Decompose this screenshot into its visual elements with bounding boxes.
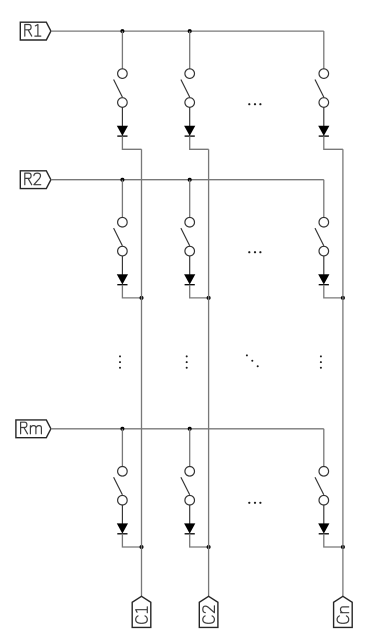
vertical ellipsis dots column Cn (more rows) xyxy=(320,355,322,368)
vertical ellipsis dots column C2 (more rows) xyxy=(186,355,188,368)
junction column C1 row R2 xyxy=(140,296,144,300)
wire switch to diode D_R2C1 xyxy=(121,256,123,275)
wire diode D_R1Cn to column Cn xyxy=(324,136,343,149)
switch SW_R2Cn xyxy=(315,217,329,256)
ellipsis dots row R2 (more columns) xyxy=(248,251,261,253)
wire stub RmC2 xyxy=(189,429,191,467)
wire column Cn vertical xyxy=(342,149,344,596)
switch SW_RmC2 xyxy=(181,467,195,506)
diagonal ellipsis dots (more rows/columns) xyxy=(246,354,259,367)
wire row Rm corner down to switch xyxy=(323,429,325,467)
wire column C2 vertical xyxy=(208,149,210,596)
wire stub R1C1 xyxy=(121,31,123,69)
diode D_RmC1 xyxy=(117,524,127,534)
wire switch to diode D_R1Cn xyxy=(323,107,325,126)
wire stub R2C2 xyxy=(189,180,191,218)
switch SW_R2C1 xyxy=(114,217,128,256)
wire stub R1C2 xyxy=(189,31,191,69)
global label Rm xyxy=(16,420,51,438)
diode D_RmCn xyxy=(319,524,329,534)
junction row R1 col C2 xyxy=(188,29,192,33)
diode D_R2C1 xyxy=(117,275,127,285)
ellipsis dots row Rm (more columns) xyxy=(248,502,261,504)
global label R1 xyxy=(20,22,51,40)
junction row R2 col C2 xyxy=(188,178,192,182)
switch SW_R1C1 xyxy=(114,69,128,108)
global label Cn xyxy=(334,596,353,627)
junction column C2 row Rm xyxy=(207,545,211,549)
switch SW_R1C2 xyxy=(181,69,195,108)
junction row R1 col C1 xyxy=(120,29,124,33)
junction column C2 row R2 xyxy=(207,296,211,300)
junction row Rm col C2 xyxy=(188,427,192,431)
wire diode D_R1C2 to column C2 xyxy=(190,136,209,149)
junction column Cn row Rm xyxy=(341,545,345,549)
vertical ellipsis dots column C1 (more rows) xyxy=(119,355,121,368)
switch SW_R1Cn xyxy=(315,69,329,108)
wire row R2 corner down to switch xyxy=(323,180,325,218)
diode D_R1Cn xyxy=(319,126,329,136)
wire switch to diode D_RmCn xyxy=(323,505,325,524)
global label C1 xyxy=(132,596,151,627)
wire switch to diode D_R1C1 xyxy=(121,107,123,126)
wire row Rm xyxy=(51,428,324,430)
switch SW_RmC1 xyxy=(114,467,128,506)
wire diode D_R1C1 to column C1 xyxy=(122,136,141,149)
diode D_R1C1 xyxy=(117,126,127,136)
wire diode D_R2C2 to column C2 xyxy=(190,285,209,298)
junction column Cn row R2 xyxy=(341,296,345,300)
wire switch to diode D_RmC1 xyxy=(121,505,123,524)
junction column C1 row Rm xyxy=(140,545,144,549)
global label R2 xyxy=(20,171,51,189)
switch SW_R2C2 xyxy=(181,217,195,256)
diode D_R1C2 xyxy=(185,126,195,136)
junction row R2 col C1 xyxy=(120,178,124,182)
ellipsis dots row R1 (more columns) xyxy=(248,103,261,105)
wire diode D_R2Cn to column Cn xyxy=(324,285,343,298)
wire diode D_R2C1 to column C1 xyxy=(122,285,141,298)
junction row Rm col C1 xyxy=(120,427,124,431)
wire stub RmC1 xyxy=(121,429,123,467)
switch SW_RmCn xyxy=(315,467,329,506)
wire switch to diode D_R2Cn xyxy=(323,256,325,275)
wire row R2 xyxy=(51,179,324,181)
wire row R1 xyxy=(51,30,324,32)
wire diode D_RmC1 to column C1 xyxy=(122,534,141,547)
wire diode D_RmC2 to column C2 xyxy=(190,534,209,547)
wire switch to diode D_R2C2 xyxy=(189,256,191,275)
diode D_R2C2 xyxy=(185,275,195,285)
wire row R1 corner down to switch xyxy=(323,31,325,69)
wire switch to diode D_R1C2 xyxy=(189,107,191,126)
diode D_R2Cn xyxy=(319,275,329,285)
wire stub R2C1 xyxy=(121,180,123,218)
diode D_RmC2 xyxy=(185,524,195,534)
wire switch to diode D_RmC2 xyxy=(189,505,191,524)
global label C2 xyxy=(199,596,218,627)
wire column C1 vertical xyxy=(141,149,143,596)
wire diode D_RmCn to column Cn xyxy=(324,534,343,547)
